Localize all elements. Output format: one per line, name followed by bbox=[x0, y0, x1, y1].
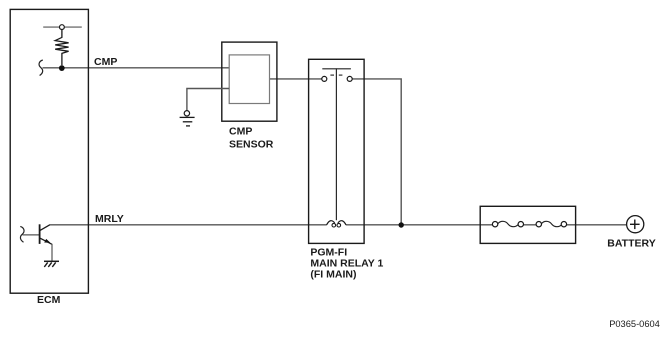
wire: fuse 2 to battery bbox=[562, 224, 627, 226]
CMP sensor inner box bbox=[229, 55, 269, 104]
transistor base bar bbox=[39, 224, 41, 244]
wire MRLY: relay coil to fuse 1 bbox=[346, 224, 495, 226]
pull-up supply line bbox=[43, 26, 82, 28]
wire: relay contact output to junction bbox=[352, 79, 401, 225]
fuse terminal circle 1 bbox=[492, 222, 497, 227]
relay coil curl 2 bbox=[337, 223, 341, 227]
relay linkage dash 1 bbox=[330, 74, 334, 76]
wire: emitter to ground bbox=[51, 244, 53, 261]
earth ground bar 1 bbox=[180, 116, 195, 118]
relay coil hump 1 bbox=[327, 221, 335, 225]
transistor emitter bbox=[40, 238, 52, 244]
wire: CMP sensor output to relay contact bbox=[270, 78, 322, 80]
earth ground bar 2 bbox=[183, 121, 193, 123]
transistor Q (ECM output driver) base wire bbox=[23, 234, 40, 236]
relay contact blade bbox=[322, 68, 351, 70]
svg-text:CMP: CMP bbox=[229, 125, 252, 137]
relay linkage dash 2 bbox=[339, 74, 343, 76]
battery plus sign vertical bbox=[634, 220, 636, 230]
wire CMP: ECM to CMP sensor inner box bbox=[43, 67, 230, 69]
svg-text:CMP: CMP bbox=[94, 56, 117, 68]
junction dot node CMP bbox=[59, 65, 65, 71]
svg-text:MRLY: MRLY bbox=[95, 213, 124, 225]
wire MRLY: transistor collector to relay coil bbox=[50, 224, 327, 226]
transistor emitter arrowhead bbox=[44, 239, 50, 243]
squiggle wire-continuation at CMP bbox=[39, 60, 43, 76]
resistor (pull-up) bbox=[55, 30, 68, 66]
svg-text:(FI MAIN): (FI MAIN) bbox=[310, 269, 356, 281]
svg-text:P0365-0604: P0365-0604 bbox=[609, 319, 660, 329]
battery positive terminal circle bbox=[627, 216, 644, 233]
relay coil curl 1 bbox=[332, 223, 336, 227]
wire: fuse 1 to fuse 2 bbox=[518, 224, 541, 226]
fuse terminal circle 4 bbox=[561, 222, 566, 227]
svg-text:SENSOR: SENSOR bbox=[229, 138, 274, 150]
svg-text:BATTERY: BATTERY bbox=[607, 238, 655, 250]
fuse F2 wave bbox=[541, 221, 562, 226]
relay contact terminal left bbox=[322, 76, 327, 81]
terminal circle on supply line bbox=[60, 25, 65, 30]
squiggle wire-continuation at transistor base bbox=[20, 226, 24, 242]
fuse F1 wave bbox=[498, 221, 519, 226]
CMP sensor outer box bbox=[222, 42, 277, 121]
transistor collector bbox=[40, 225, 50, 231]
earth ground bar 3 bbox=[186, 125, 190, 127]
fuse box bbox=[480, 206, 575, 243]
fuse terminal circle 3 bbox=[536, 222, 541, 227]
relay plunger line bbox=[335, 69, 337, 221]
ground hatch stroke 2 bbox=[48, 262, 51, 267]
wire: sensor ground lead bbox=[187, 89, 229, 111]
relay contact terminal right bbox=[347, 76, 352, 81]
ground (chassis) bar bbox=[44, 260, 59, 262]
ECM box bbox=[10, 9, 88, 293]
battery plus sign horizontal bbox=[630, 223, 640, 225]
sensor ground terminal circle bbox=[184, 111, 189, 116]
ground hatch stroke 3 bbox=[52, 262, 55, 267]
ground hatch stroke 1 bbox=[44, 262, 47, 267]
junction dot node at relay output bbox=[399, 222, 404, 227]
svg-text:ECM: ECM bbox=[37, 294, 61, 306]
relay K1 box (PGM-FI main relay 1) bbox=[309, 59, 365, 243]
fuse terminal circle 2 bbox=[518, 222, 523, 227]
relay coil hump 2 bbox=[338, 221, 346, 225]
